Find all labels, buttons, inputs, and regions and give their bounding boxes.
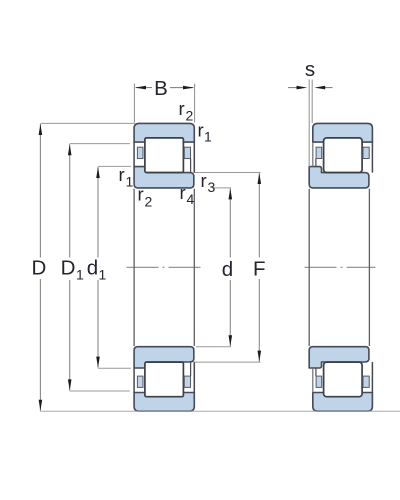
- D1 tick top: [70, 143, 130, 145]
- svg-text:3: 3: [208, 179, 216, 195]
- centerline front view: [127, 266, 201, 268]
- svg-text:s: s: [305, 58, 315, 81]
- svg-text:r: r: [138, 184, 144, 205]
- B dimension: [134, 77, 194, 123]
- F dim line: [258, 173, 260, 258]
- front lower section (mirror): [134, 347, 194, 412]
- s extension line inner face: [308, 80, 310, 167]
- F tick top: [195, 172, 261, 174]
- F arrow down: [258, 351, 262, 362]
- svg-text:D: D: [61, 257, 76, 280]
- svg-text:1: 1: [126, 173, 134, 189]
- d1 arrow up: [96, 167, 100, 178]
- svg-text:d: d: [87, 257, 98, 280]
- D dim line: [39, 124, 41, 258]
- d tick top: [212, 187, 231, 189]
- B extension line left: [133, 84, 135, 123]
- B extension line right: [194, 84, 196, 123]
- D1 arrow up: [68, 144, 72, 155]
- svg-text:r: r: [201, 170, 207, 191]
- D dimension: [31, 123, 400, 411]
- s arrow right: [314, 86, 325, 90]
- svg-text:1: 1: [76, 267, 84, 283]
- F tick bottom: [195, 361, 261, 363]
- svg-text:2: 2: [186, 108, 194, 124]
- svg-text:r: r: [198, 119, 204, 140]
- svg-text:2: 2: [145, 193, 153, 209]
- svg-text:1: 1: [204, 129, 212, 145]
- F dimension: [195, 173, 266, 363]
- svg-text:r: r: [119, 164, 125, 185]
- d dim line: [229, 188, 231, 257]
- d1 dimension: [87, 166, 131, 368]
- d1 arrow down: [96, 357, 100, 368]
- s dim line left: [288, 87, 298, 89]
- F arrow up: [258, 173, 262, 184]
- d1 dim line: [97, 167, 99, 258]
- d arrow down: [229, 335, 233, 346]
- svg-text:r: r: [180, 182, 186, 203]
- right upper section: [309, 123, 372, 187]
- s arrow left: [297, 86, 308, 90]
- svg-text:1: 1: [99, 267, 107, 283]
- front upper section: [134, 123, 194, 187]
- B arrow right: [183, 86, 194, 90]
- D1 tick bottom: [70, 390, 130, 392]
- D tick bottom (long): [40, 410, 400, 412]
- d arrow up: [229, 188, 233, 199]
- bore silhouette lines front view: [133, 189, 135, 346]
- svg-text:r: r: [179, 98, 185, 119]
- B arrow left: [135, 86, 146, 90]
- bore silhouette lines side view: [308, 189, 310, 346]
- D arrow up: [39, 124, 43, 135]
- D1 arrow down: [68, 379, 72, 390]
- D tick top: [40, 122, 135, 124]
- d dimension: [196, 188, 233, 347]
- d1 tick top: [98, 165, 131, 167]
- d1 tick bottom: [98, 367, 131, 369]
- svg-text:D: D: [31, 257, 46, 280]
- D1 dimension: [61, 144, 130, 391]
- svg-text:B: B: [154, 77, 168, 100]
- centerline side view: [305, 266, 376, 268]
- B dimension line: [136, 87, 152, 89]
- s extension line outer face: [311, 80, 313, 124]
- D1 dim line: [69, 144, 71, 257]
- d tick bottom: [196, 346, 231, 348]
- right lower section (mirror): [309, 347, 372, 412]
- s dim line right: [324, 87, 333, 89]
- s dimension: [288, 58, 333, 167]
- D arrow down: [39, 400, 43, 411]
- svg-text:F: F: [253, 258, 266, 281]
- svg-text:d: d: [222, 258, 233, 281]
- svg-text:4: 4: [187, 191, 195, 207]
